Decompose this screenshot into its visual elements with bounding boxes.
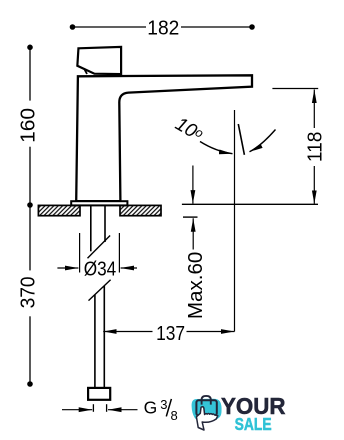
svg-text:G: G	[144, 397, 158, 417]
svg-text:Ø34: Ø34	[84, 259, 117, 281]
svg-text:370: 370	[18, 276, 40, 308]
svg-text:8: 8	[171, 408, 178, 423]
svg-text:10o: 10o	[172, 114, 207, 146]
svg-text:118: 118	[305, 132, 327, 163]
svg-text:SALE: SALE	[235, 416, 272, 435]
svg-text:137: 137	[156, 323, 185, 345]
svg-text:182: 182	[147, 17, 179, 39]
svg-text:Max.60: Max.60	[185, 252, 207, 320]
svg-text:160: 160	[18, 108, 40, 143]
svg-text:3: 3	[160, 397, 167, 412]
